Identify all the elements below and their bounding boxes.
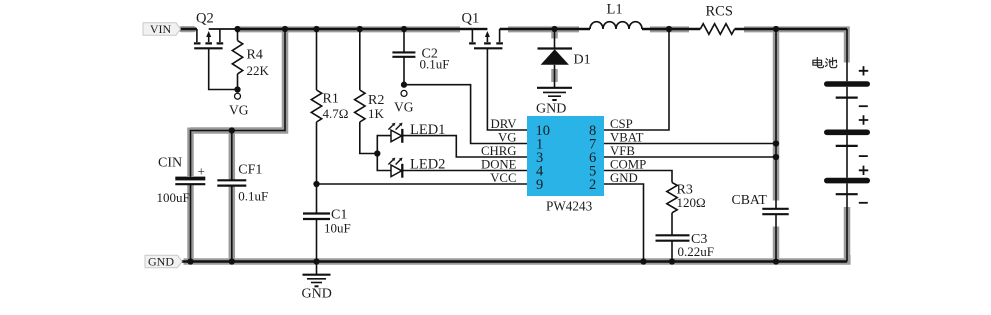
svg-text:GND: GND — [610, 171, 638, 185]
wire VIN to Q2 source — [181, 28, 197, 30]
battery plus sign 2 — [859, 115, 868, 124]
node rail CSP sense — [666, 26, 672, 32]
node CF1 top — [229, 127, 235, 133]
capacitor C3 — [656, 232, 714, 262]
capacitor C2 — [392, 29, 449, 85]
node rail D1 — [551, 26, 557, 32]
svg-text:RCS: RCS — [706, 4, 733, 20]
svg-text:D1: D1 — [574, 53, 591, 68]
wire top rail Q1 drain to L1 — [500, 28, 590, 30]
node VG at R4 — [234, 86, 240, 92]
ground symbol bottom — [302, 262, 332, 302]
svg-text:PW4243: PW4243 — [546, 199, 593, 214]
wire VCC to pin9 — [317, 183, 528, 185]
node CIN bottom rail — [187, 258, 193, 264]
battery plus sign 1 — [859, 66, 868, 75]
wire top rail Q2 drain to Q1 source — [237, 28, 473, 30]
svg-text:GND: GND — [302, 287, 332, 302]
wire gray highlight bottom GND rail — [184, 255, 848, 262]
inductor L1 — [590, 2, 642, 30]
svg-text:COMP: COMP — [610, 158, 646, 172]
wire top rail L1 to RCS — [642, 28, 700, 30]
capacitor C1 — [303, 184, 351, 262]
wire gray highlight CF1 vertical — [229, 131, 236, 262]
svg-text:0.1uF: 0.1uF — [238, 189, 268, 204]
svg-text:LED2: LED2 — [410, 157, 445, 173]
svg-text:+: + — [198, 164, 205, 179]
node VG at C2 — [401, 82, 407, 88]
svg-text:VG: VG — [498, 131, 516, 145]
wire DRV gate wire — [487, 48, 527, 130]
wire VG node to pin1 — [404, 85, 527, 144]
node VCC junction — [313, 181, 319, 187]
svg-text:GND: GND — [536, 102, 566, 117]
net label VIN — [143, 22, 181, 36]
wire gray highlight top rail RCS to battery corner — [744, 29, 847, 62]
svg-text:VCC: VCC — [490, 171, 516, 185]
node rail R1 — [313, 26, 319, 32]
diode D1 — [538, 29, 591, 88]
wire gray highlight D1 bottom stub — [551, 69, 558, 82]
battery minus sign 2 — [859, 155, 868, 157]
wire gray highlight top rail Q2 to Q1 — [236, 26, 460, 32]
LED LED1 — [377, 122, 527, 157]
terminal VG left — [229, 93, 249, 117]
node GND pin2 rail — [640, 258, 646, 264]
resistor R1 — [311, 29, 348, 184]
svg-text:4.7Ω: 4.7Ω — [323, 106, 349, 121]
svg-text:LED1: LED1 — [410, 122, 445, 138]
svg-text:10uF: 10uF — [324, 221, 351, 236]
wire gray highlight CBAT vertical — [773, 31, 780, 258]
node rail R4 — [234, 26, 240, 32]
svg-text:Q1: Q1 — [462, 11, 480, 27]
wire gray highlight battery bottom — [844, 207, 851, 258]
net label GND — [145, 255, 182, 269]
svg-text:CIN: CIN — [158, 156, 182, 171]
svg-text:VG: VG — [229, 103, 249, 118]
svg-text:0.22uF: 0.22uF — [678, 244, 714, 259]
LED LED2 — [377, 154, 527, 178]
battery minus sign 1 — [859, 105, 868, 107]
node CF1 bottom rail — [229, 258, 235, 264]
resistor R2 — [355, 29, 385, 154]
node rail input-cap branch — [282, 26, 288, 32]
svg-text:CF1: CF1 — [238, 163, 262, 178]
wire input cap branch black — [191, 29, 286, 177]
svg-text:DONE: DONE — [481, 158, 517, 172]
svg-text:R1: R1 — [323, 92, 339, 107]
wire gray highlight D1 top stub — [551, 31, 558, 39]
svg-text:R4: R4 — [247, 48, 263, 63]
svg-text:0.1uF: 0.1uF — [420, 57, 450, 72]
wire VBAT to battery rail — [604, 143, 776, 145]
node LED splitter — [374, 150, 380, 156]
node C1 bottom rail — [313, 258, 319, 264]
svg-text:VG: VG — [394, 100, 414, 115]
wire top rail RCS to battery — [735, 28, 847, 30]
node rail R2 — [357, 26, 363, 32]
node CBAT bottom rail — [773, 258, 779, 264]
battery plus sign 3 — [859, 166, 868, 175]
IC U1 PW4243 body — [527, 116, 604, 214]
svg-text:22K: 22K — [247, 63, 270, 78]
wire COMP to R3 — [604, 171, 672, 183]
wire gray highlight VIN stub — [182, 26, 194, 32]
svg-text:CSP: CSP — [610, 117, 633, 131]
transistor Q2 — [194, 11, 238, 90]
capacitor CIN — [157, 156, 206, 262]
svg-text:L1: L1 — [607, 2, 623, 18]
svg-text:VFB: VFB — [610, 144, 635, 158]
node C3 rail — [669, 258, 675, 264]
svg-text:1K: 1K — [368, 106, 385, 121]
capacitor CF1 — [217, 131, 268, 262]
node VFB junction — [773, 154, 779, 160]
battery pack 电池 — [824, 29, 870, 262]
wire bottom GND rail — [181, 260, 848, 262]
resistor RCS — [700, 4, 734, 35]
transistor Q1 — [462, 11, 503, 49]
svg-text:9: 9 — [536, 177, 543, 193]
node rail C2 — [401, 26, 407, 32]
svg-text:VBAT: VBAT — [610, 131, 644, 145]
resistor R3 — [667, 182, 706, 235]
svg-text:120Ω: 120Ω — [677, 195, 706, 210]
terminal VG right — [394, 90, 414, 114]
capacitor CBAT — [732, 29, 789, 262]
wire gray highlight CIN vertical — [187, 128, 194, 262]
resistor R4 — [232, 29, 269, 90]
wire gray highlight top rail Q1 to L1 — [508, 26, 579, 32]
svg-text:CHRG: CHRG — [481, 144, 517, 158]
svg-text:GND: GND — [148, 255, 174, 269]
battery minus sign 3 — [859, 202, 868, 204]
ground symbol D1 — [536, 88, 572, 117]
battery label dian chi — [813, 58, 837, 68]
svg-text:Q2: Q2 — [196, 11, 214, 27]
wire GND pin2 to rail — [604, 184, 644, 262]
wire gray highlight top rail L1 to RCS — [650, 26, 689, 32]
wire CSP to sense node — [604, 29, 669, 130]
svg-text:DRV: DRV — [491, 117, 518, 131]
wire gray highlight input cap branch — [191, 31, 286, 131]
svg-text:VIN: VIN — [150, 22, 172, 36]
svg-text:CBAT: CBAT — [732, 192, 768, 207]
wire VFB to battery rail — [604, 156, 776, 158]
node VBAT junction — [773, 140, 779, 146]
node rail CBAT — [773, 26, 779, 32]
svg-text:2: 2 — [589, 177, 596, 193]
svg-text:100uF: 100uF — [157, 190, 190, 205]
